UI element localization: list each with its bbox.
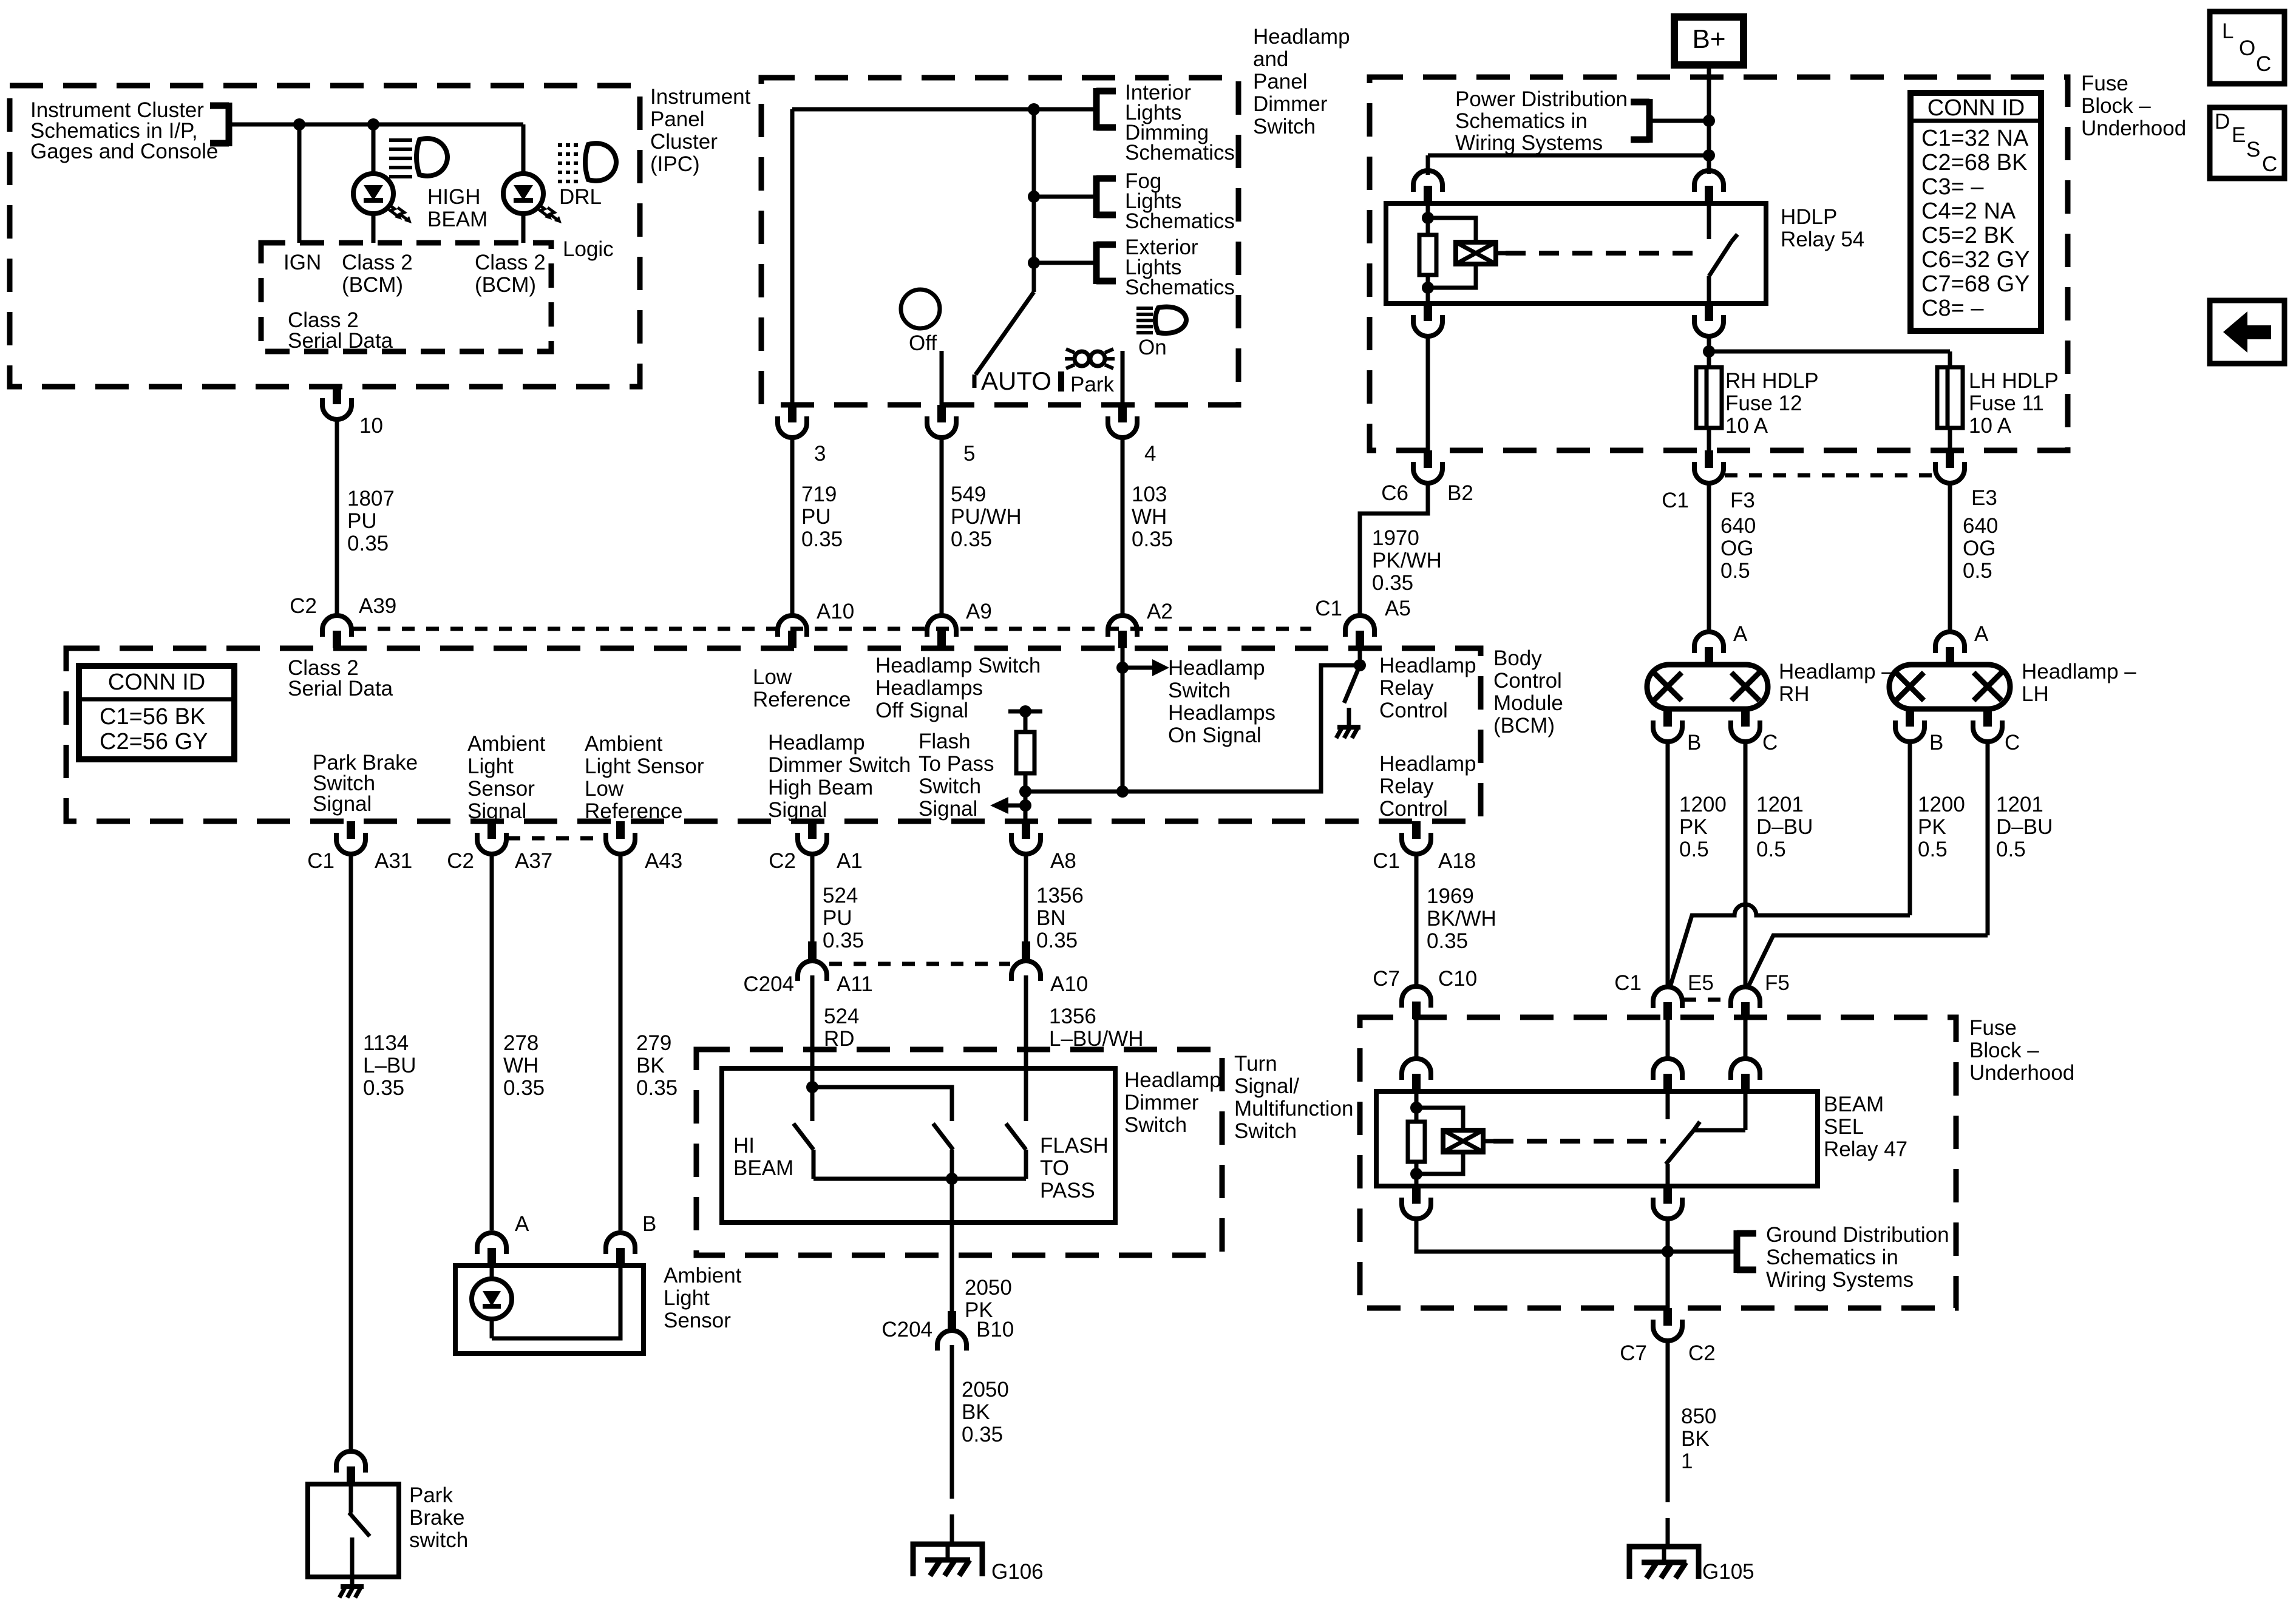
connector: E3 fuse block output (1935, 450, 1965, 483)
label: B2 (1447, 481, 1473, 505)
svg-text:WH: WH (503, 1054, 538, 1077)
junction: fuse feed split (1703, 345, 1715, 358)
photodiode: ambient light sensor element (472, 1266, 512, 1338)
wire: switch common riser (1032, 109, 1036, 292)
connector: A2 into BCM (1108, 615, 1137, 648)
svg-text:C1: C1 (1373, 849, 1400, 873)
svg-text:Switch: Switch (1253, 115, 1316, 138)
connector: headlamp switch pin 4 (1108, 405, 1137, 438)
svg-text:278: 278 (503, 1031, 538, 1055)
svg-text:524: 524 (824, 1005, 859, 1028)
junction: relay 47 resistor bottom (1410, 1168, 1422, 1180)
wire: 279 BK sensor low ref (619, 853, 623, 1230)
connector: park brake switch input (336, 1451, 365, 1484)
switch: dimmer common blade (933, 1124, 953, 1179)
connector: relay 54 switch output pin (1694, 303, 1724, 336)
wire: LH low beam 1200 PK with crossover hop (1669, 741, 1910, 989)
svg-text:C2: C2 (290, 594, 317, 618)
box: Ambient Light Sensor (455, 1266, 644, 1354)
label: wire 1970 PK/WH 0.35 (1372, 526, 1442, 595)
connector: headlamp switch pin 5 (927, 405, 956, 438)
label: Headlamp Dimmer Switch (1124, 1068, 1221, 1137)
wire: IGN drop to Class 2 box (297, 124, 302, 243)
label: Ambient Light Sensor Signal (467, 732, 546, 823)
wire: Off contact stub to pin 5 (940, 351, 944, 405)
svg-text:0.5: 0.5 (1720, 559, 1750, 583)
svg-text:FLASH: FLASH (1040, 1134, 1109, 1158)
svg-text:Sensor: Sensor (664, 1309, 731, 1332)
box: Fuse Block - Underhood dashed outline (1370, 77, 2068, 450)
svg-text:B+: B+ (1692, 24, 1725, 54)
connector: C7 C10 into fuse block (1402, 986, 1431, 1019)
svg-text:D–BU: D–BU (1756, 815, 1813, 839)
label: Power Distribution Schematics in Wiring Systems (1455, 87, 1628, 155)
svg-text:C6=32 GY: C6=32 GY (1921, 247, 2030, 273)
svg-text:0.35: 0.35 (347, 532, 389, 555)
svg-text:Headlamps: Headlamps (875, 676, 983, 700)
svg-text:A37: A37 (515, 849, 552, 873)
svg-text:B: B (1687, 731, 1701, 754)
svg-text:Brake: Brake (409, 1506, 464, 1530)
relay 54 switch contact (1709, 203, 1737, 303)
wire: 1807 PU from IPC to BCM (335, 419, 339, 616)
label: A37 (515, 849, 552, 873)
junction: hi beam input node (806, 1081, 818, 1093)
svg-text:Switch: Switch (919, 775, 981, 798)
svg-text:TO: TO (1040, 1156, 1069, 1180)
svg-text:C3= –: C3= – (1921, 174, 1984, 200)
svg-text:C1: C1 (307, 849, 335, 873)
svg-text:B: B (642, 1212, 656, 1236)
label: wire 103 WH 0.35 (1132, 483, 1173, 551)
label: Fuse Block - Underhood (bottom) (1969, 1016, 2074, 1085)
svg-text:F5: F5 (1765, 971, 1790, 995)
wire: 524 PU high beam signal (810, 853, 815, 941)
label: wire 524 RD (824, 1005, 859, 1051)
label: C1 (A18) (1373, 849, 1400, 873)
label: C204 (B10) (881, 1318, 932, 1341)
wire: branch to relay coil pin (1428, 155, 1709, 175)
bracket: power distribution reference (1631, 99, 1649, 143)
label: Class 2 (BCM) right (475, 251, 546, 297)
connector: headlamp switch pin 3 (778, 405, 807, 438)
label: wire 640 OG 0.5 RH (1720, 514, 1756, 583)
connector: A8 BCM output (1011, 821, 1041, 854)
table: CONN ID fuse block underhood (1911, 93, 2041, 331)
connector: ambient sensor pin A (477, 1233, 506, 1266)
svg-text:Schematics: Schematics (1125, 141, 1235, 164)
label: A18 (1438, 849, 1476, 873)
label: Flash To Pass Switch Signal (919, 730, 994, 821)
wire: relay output to ground bus (1666, 1218, 1670, 1319)
svg-text:Instrument: Instrument (650, 85, 751, 109)
label: A (RH) (1733, 622, 1748, 646)
svg-text:E3: E3 (1971, 486, 1997, 510)
label: A5 (1385, 597, 1411, 620)
label: C (RH) (1762, 731, 1778, 754)
svg-text:Headlamp: Headlamp (1379, 752, 1476, 776)
svg-text:(BCM): (BCM) (342, 273, 403, 297)
svg-text:Headlamps: Headlamps (1168, 701, 1275, 725)
svg-text:L: L (2222, 19, 2233, 43)
table: CONN ID BCM (79, 666, 234, 759)
label: wire 850 BK 1 (1681, 1405, 1716, 1473)
label: Headlamp Dimmer Switch High Beam Signal (768, 731, 911, 822)
label: BEAM SEL Relay 47 (1824, 1093, 1907, 1161)
label: FLASH TO PASS (1040, 1134, 1109, 1202)
svg-text:High Beam: High Beam (768, 776, 873, 799)
svg-text:Park: Park (409, 1483, 453, 1507)
label: Headlamp - RH (1779, 660, 1894, 706)
svg-text:Logic: Logic (563, 237, 614, 261)
connector: headlamp LH pin C (1973, 709, 2002, 742)
svg-text:0.35: 0.35 (636, 1076, 678, 1100)
label: A (sensor) (515, 1212, 529, 1236)
wire: 1970 PK/WH jog to BCM A5 (1360, 483, 1428, 616)
label: A9 (966, 600, 992, 623)
label: F3 (1730, 489, 1755, 512)
ground: G106 (913, 1544, 982, 1576)
switch position: Park contact tick (1058, 371, 1064, 392)
svg-text:Dimmer Switch: Dimmer Switch (768, 753, 911, 777)
relay 47 coil resistor (1408, 1091, 1425, 1186)
svg-text:BK: BK (1681, 1427, 1710, 1451)
svg-text:Dimmer: Dimmer (1124, 1091, 1199, 1114)
label: wire 2050 PK (965, 1276, 1012, 1322)
junction: arrow tap (1019, 799, 1031, 812)
wire: to fog lights bracket (1034, 195, 1096, 199)
svg-text:D–BU: D–BU (1996, 815, 2053, 839)
ground: park brake (339, 1587, 364, 1598)
label: Park Brake Switch Signal (313, 751, 418, 816)
label: F5 (1765, 971, 1790, 995)
connector: relay 47 common pin (1653, 1059, 1682, 1091)
label: Class 2 Serial Data (IPC) (288, 308, 393, 353)
wire: hi beam contact drop (810, 1087, 815, 1121)
svg-text:(IPC): (IPC) (650, 152, 700, 176)
wire: 103 WH (1121, 437, 1125, 616)
svg-text:BK: BK (636, 1054, 665, 1077)
label: Ambient Light Sensor (664, 1264, 742, 1332)
label: Ground Distribution Schematics in Wiring Systems (1766, 1223, 1949, 1292)
label: pin 3 (814, 442, 826, 466)
label: HDLP Relay 54 (1781, 205, 1864, 251)
svg-text:OG: OG (1963, 537, 1995, 560)
svg-text:Control: Control (1379, 699, 1448, 722)
svg-text:0.5: 0.5 (1918, 838, 1948, 861)
label: Headlamp Relay Control (lower) (1379, 752, 1476, 821)
svg-text:PK: PK (1918, 815, 1946, 839)
svg-text:C8= –: C8= – (1921, 296, 1984, 321)
label: On (1138, 336, 1167, 359)
wire: F5 to relay 47 (1744, 1020, 1748, 1058)
switch: BCM headlamp relay driver (1344, 665, 1360, 703)
svg-text:Control: Control (1493, 669, 1562, 693)
svg-text:Relay 54: Relay 54 (1781, 228, 1864, 251)
svg-text:(BCM): (BCM) (1493, 714, 1555, 737)
label: wire 278 WH 0.35 (503, 1031, 545, 1100)
label: Headlamp and Panel Dimmer Switch (1253, 25, 1350, 138)
label: B (RH) (1687, 731, 1701, 754)
wire: bus to ground distribution bracket (1668, 1250, 1737, 1254)
label: wire 1807 PU 0.35 (347, 487, 395, 555)
wire: headlamp switch feed bus (792, 109, 1034, 405)
label: Headlamp Relay Control (upper) (1379, 654, 1476, 722)
svg-text:1970: 1970 (1372, 526, 1419, 550)
wire: 549 PU/WH (940, 437, 944, 616)
svg-text:0.35: 0.35 (503, 1076, 545, 1100)
svg-text:A: A (1733, 622, 1748, 646)
label: IGN (284, 251, 321, 274)
svg-text:A11: A11 (837, 972, 873, 996)
svg-text:C2: C2 (447, 849, 474, 873)
wire: resistor bottom node (1024, 773, 1028, 823)
label: E3 (1971, 486, 1997, 510)
svg-text:0.35: 0.35 (1427, 929, 1468, 953)
wire: 850 BK to ground (1666, 1340, 1670, 1473)
connector: A9 into BCM (927, 615, 956, 648)
svg-text:BK/WH: BK/WH (1427, 907, 1496, 931)
label: Low Reference (753, 665, 851, 711)
svg-text:1134: 1134 (363, 1031, 409, 1055)
svg-text:BK: BK (962, 1400, 990, 1424)
wire: 719 PU (790, 437, 795, 616)
label: wire 524 PU 0.35 (823, 884, 864, 952)
svg-text:On: On (1138, 336, 1167, 359)
relay 54 coil resistor (1419, 203, 1436, 303)
wire: 1969 BK/WH beam select control (1415, 853, 1419, 985)
svg-text:F3: F3 (1730, 489, 1755, 512)
wire: B+ feed down to relay (1707, 65, 1711, 174)
bracket: instrument cluster schematics reference (210, 103, 229, 146)
label: A8 (1050, 849, 1076, 873)
box: Park Brake switch (308, 1484, 399, 1577)
svg-text:Headlamp: Headlamp (1379, 654, 1476, 677)
svg-text:Ambient: Ambient (585, 732, 663, 756)
wire: hi beam top bus (812, 1087, 952, 1121)
label: wire 719 PU 0.35 (801, 483, 843, 551)
svg-text:1356: 1356 (1049, 1005, 1096, 1028)
bulb X marks RH (1654, 673, 1759, 700)
bracket: fog lights schematics (1096, 175, 1116, 218)
fuse: LH HDLP Fuse 11 (1937, 367, 1963, 428)
svg-text:Off: Off (909, 331, 937, 355)
svg-text:Relay: Relay (1379, 775, 1434, 798)
svg-text:A2: A2 (1147, 600, 1173, 623)
svg-text:Headlamp: Headlamp (1168, 656, 1265, 680)
wire: dashed drop to G106 (950, 1470, 954, 1544)
icon: high beam headlamp symbol (389, 138, 447, 177)
label: C1 (F3) (1662, 489, 1689, 512)
svg-text:Module: Module (1493, 691, 1563, 715)
wire: DRL LED branch (521, 124, 526, 243)
dotted grouping line: A37 to A43 (508, 836, 605, 841)
svg-text:C1=32 NA: C1=32 NA (1921, 126, 2029, 151)
svg-text:A1: A1 (837, 849, 863, 873)
connector: C6 B2 fuse block output (1413, 450, 1442, 483)
label: wire 640 OG 0.5 LH (1963, 514, 1998, 583)
switch: park brake contact (349, 1484, 370, 1587)
svg-text:C2=68 BK: C2=68 BK (1921, 150, 2027, 175)
svg-text:Panel: Panel (1253, 70, 1308, 93)
svg-text:Relay: Relay (1379, 676, 1434, 700)
svg-text:Switch: Switch (1124, 1113, 1187, 1137)
LED indicator: DRL (503, 174, 562, 223)
svg-text:C: C (2256, 52, 2271, 76)
svg-text:Block –: Block – (1969, 1039, 2039, 1062)
label: LH HDLP Fuse 11 10 A (1969, 369, 2059, 438)
svg-text:A: A (1974, 622, 1989, 646)
svg-text:Fuse: Fuse (2081, 72, 2128, 95)
svg-text:Schematics in: Schematics in (1455, 109, 1588, 133)
svg-text:5: 5 (963, 442, 975, 466)
wire: A5 into relay control switch (1358, 648, 1362, 665)
svg-text:Signal/: Signal/ (1234, 1074, 1299, 1098)
box: Instrument Panel Cluster (IPC) dashed outline (10, 86, 640, 387)
connector: relay 47 coil pin (1402, 1059, 1431, 1091)
box: Body Control Module (BCM) dashed outline (66, 648, 1481, 821)
svg-text:Serial Data: Serial Data (288, 677, 393, 700)
svg-text:Relay 47: Relay 47 (1824, 1137, 1907, 1161)
svg-text:279: 279 (636, 1031, 671, 1055)
svg-text:1969: 1969 (1427, 884, 1474, 908)
switch: HI BEAM blade (793, 1124, 813, 1179)
switch: FLASH TO PASS blade (1006, 1124, 1026, 1179)
svg-text:Headlamp Switch: Headlamp Switch (875, 654, 1041, 677)
switch lever: AUTO position (974, 292, 1034, 388)
label: A31 (375, 849, 412, 873)
wire: 1356 BN flash to pass signal (1024, 853, 1028, 941)
svg-text:1356: 1356 (1036, 884, 1084, 907)
wire: 640 OG RH (1707, 483, 1711, 632)
svg-text:Control: Control (1379, 797, 1448, 821)
wire: bracket to IGN node (229, 123, 523, 127)
svg-text:D: D (2215, 110, 2230, 134)
svg-text:C4=2 NA: C4=2 NA (1921, 198, 2016, 224)
junction: fog lights tap (1028, 191, 1040, 203)
svg-text:C1: C1 (1662, 489, 1689, 512)
relay 47 switch contact (1666, 1091, 1745, 1186)
svg-text:LH HDLP: LH HDLP (1969, 369, 2059, 393)
svg-text:PU: PU (347, 509, 377, 533)
svg-text:A43: A43 (645, 849, 682, 873)
label: wire 1200 PK 0.5 RH (1679, 793, 1727, 861)
label: Body Control Module (BCM) (1493, 646, 1563, 737)
svg-text:BEAM: BEAM (1824, 1093, 1884, 1116)
connector: C7 C2 fuse block output (1653, 1308, 1682, 1341)
svg-text:(BCM): (BCM) (475, 273, 536, 297)
connector: C204 A10 inline (1011, 941, 1041, 981)
svg-text:Signal: Signal (768, 798, 827, 822)
svg-text:PK: PK (1679, 815, 1708, 839)
junction: on signal tap (1116, 662, 1129, 674)
svg-text:0.5: 0.5 (1996, 838, 2026, 861)
label: Fog Lights Schematics (1125, 169, 1235, 233)
label: C6 (1381, 481, 1408, 505)
svg-text:524: 524 (823, 884, 858, 907)
label: C (LH) (2005, 731, 2020, 754)
svg-text:RH HDLP: RH HDLP (1725, 369, 1819, 393)
box: Class 2 Serial Data inner dashed box (261, 243, 551, 351)
svg-text:Class 2: Class 2 (342, 251, 413, 274)
svg-text:BEAM: BEAM (427, 208, 487, 231)
wire: dashed drop to G105 (1666, 1473, 1670, 1547)
connector: C2 A39 into BCM (322, 615, 352, 648)
label: E5 (1688, 971, 1714, 995)
svg-text:PU: PU (801, 505, 831, 529)
svg-text:10: 10 (359, 414, 383, 438)
wire: flash node to relay control riser (1025, 665, 1360, 792)
junction: ground bus node (1662, 1246, 1674, 1258)
label: C2 (A1) (769, 849, 796, 873)
svg-text:0.35: 0.35 (1132, 527, 1173, 551)
label: HIGH BEAM (427, 185, 487, 231)
svg-text:Flash: Flash (919, 730, 971, 753)
svg-text:Multifunction: Multifunction (1234, 1097, 1353, 1120)
label: Park Brake switch (409, 1483, 468, 1552)
svg-text:549: 549 (951, 483, 986, 506)
wire: dimmer output 2050 PK (950, 1179, 954, 1311)
svg-text:G105: G105 (1702, 1560, 1754, 1584)
label: A2 (1147, 600, 1173, 623)
svg-text:Block –: Block – (2081, 94, 2151, 118)
label: A43 (645, 849, 682, 873)
svg-text:Reference: Reference (753, 688, 851, 711)
svg-text:1807: 1807 (347, 487, 395, 510)
label: C2 (ground) (1688, 1341, 1716, 1365)
label: DRL (559, 185, 602, 209)
label: Logic (563, 237, 614, 261)
svg-text:C2=56 GY: C2=56 GY (100, 729, 208, 754)
svg-text:A18: A18 (1438, 849, 1476, 873)
fuse: RH HDLP Fuse 12 (1696, 367, 1722, 428)
junction: resistor output (1019, 785, 1031, 798)
svg-text:1201: 1201 (1996, 793, 2043, 816)
svg-text:0.5: 0.5 (1679, 838, 1709, 861)
svg-text:Signal: Signal (467, 799, 526, 823)
junction: node at IGN wire (293, 118, 305, 131)
wire: sensor internal return (492, 1266, 620, 1338)
svg-text:2050: 2050 (965, 1276, 1012, 1300)
svg-text:C6: C6 (1381, 481, 1408, 505)
label: wire 1200 PK 0.5 LH (1918, 793, 1965, 861)
svg-text:Headlamp –: Headlamp – (1779, 660, 1894, 683)
junction: exterior lights tap (1028, 257, 1040, 269)
svg-text:O: O (2239, 36, 2255, 60)
reference: DESC box (2210, 107, 2284, 178)
resistor: flash to pass pull-up (1016, 732, 1034, 773)
connector: relay 54 coil output pin (1413, 303, 1442, 336)
svg-text:Class 2: Class 2 (475, 251, 546, 274)
svg-text:Headlamp: Headlamp (768, 731, 865, 754)
svg-text:Light: Light (467, 754, 514, 778)
svg-text:RH: RH (1779, 682, 1810, 706)
svg-text:10 A: 10 A (1969, 414, 2012, 438)
svg-text:0.35: 0.35 (363, 1076, 404, 1100)
svg-text:Panel: Panel (650, 107, 705, 131)
svg-text:CONN ID: CONN ID (108, 670, 205, 695)
svg-text:Wiring Systems: Wiring Systems (1766, 1268, 1914, 1292)
label: C7 (C10) (1373, 967, 1400, 991)
label: C1 (E5) (1614, 971, 1642, 995)
svg-text:PU: PU (823, 906, 852, 930)
wire: coil ground to bus (1416, 1218, 1668, 1252)
svg-text:A5: A5 (1385, 597, 1411, 620)
svg-text:640: 640 (1963, 514, 1998, 538)
wire: feed to LH fuse (1709, 351, 1950, 367)
svg-text:A: A (515, 1212, 529, 1236)
label: C7 (C2) (1620, 1341, 1647, 1365)
